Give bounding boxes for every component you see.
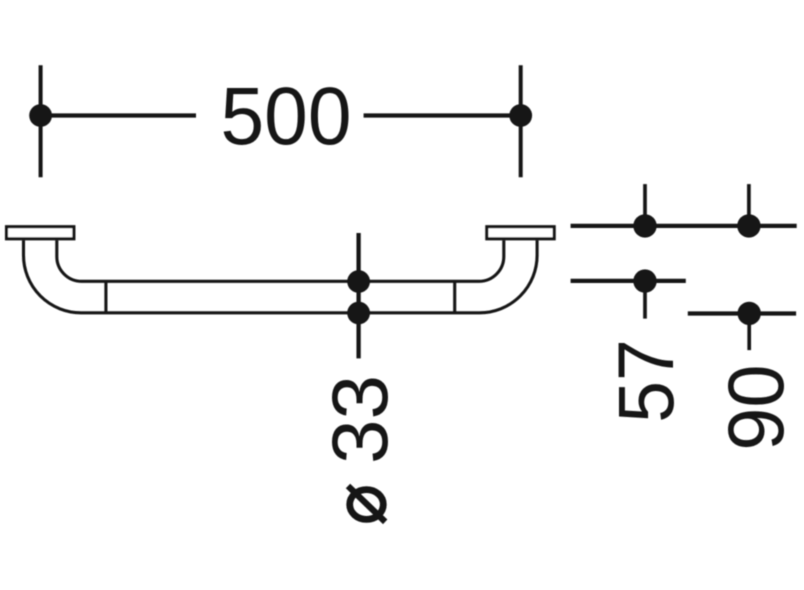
svg-text:500: 500 [221,71,352,162]
diameter symbol slash [348,486,385,522]
wall datum dot at 57 position [633,214,656,237]
bar bottom reference dot [738,302,761,325]
wall datum tick at 57 position [643,184,647,226]
dimension 500 right extension line [519,65,523,177]
diameter dimension upper dot [347,270,370,293]
grab bar tube inner outline [57,240,504,281]
diameter symbol circle [350,490,384,520]
diameter dimension line [356,233,360,358]
svg-text:57: 57 [601,339,690,423]
bar top reference tick [643,281,647,319]
bar bottom reference line (90 dimension) [688,311,796,315]
bar top reference line (57 dimension) [571,279,686,283]
wall datum tick at 90 position [747,184,751,226]
bar top reference dot [633,269,656,292]
dimension 500 line right segment [364,113,521,117]
grab bar right flange [487,227,554,239]
grab bar right joint line [453,281,456,313]
svg-text:90: 90 [711,364,800,450]
dimension 500 left extension line [39,65,43,177]
dimension 500 right dot [509,104,532,127]
dimension 500 left dot [29,104,52,127]
svg-text:33: 33 [315,375,404,464]
diameter dimension lower dot [347,302,370,325]
grab bar left joint line [104,281,107,313]
dimension 500 line left segment [41,113,196,117]
grab bar left flange [7,227,74,239]
wall datum dimension line (for 57 and 90) [571,224,797,228]
grab bar tube outer outline [24,240,538,312]
bar bottom reference tick [747,314,751,351]
wall datum dot at 90 position [737,214,760,237]
